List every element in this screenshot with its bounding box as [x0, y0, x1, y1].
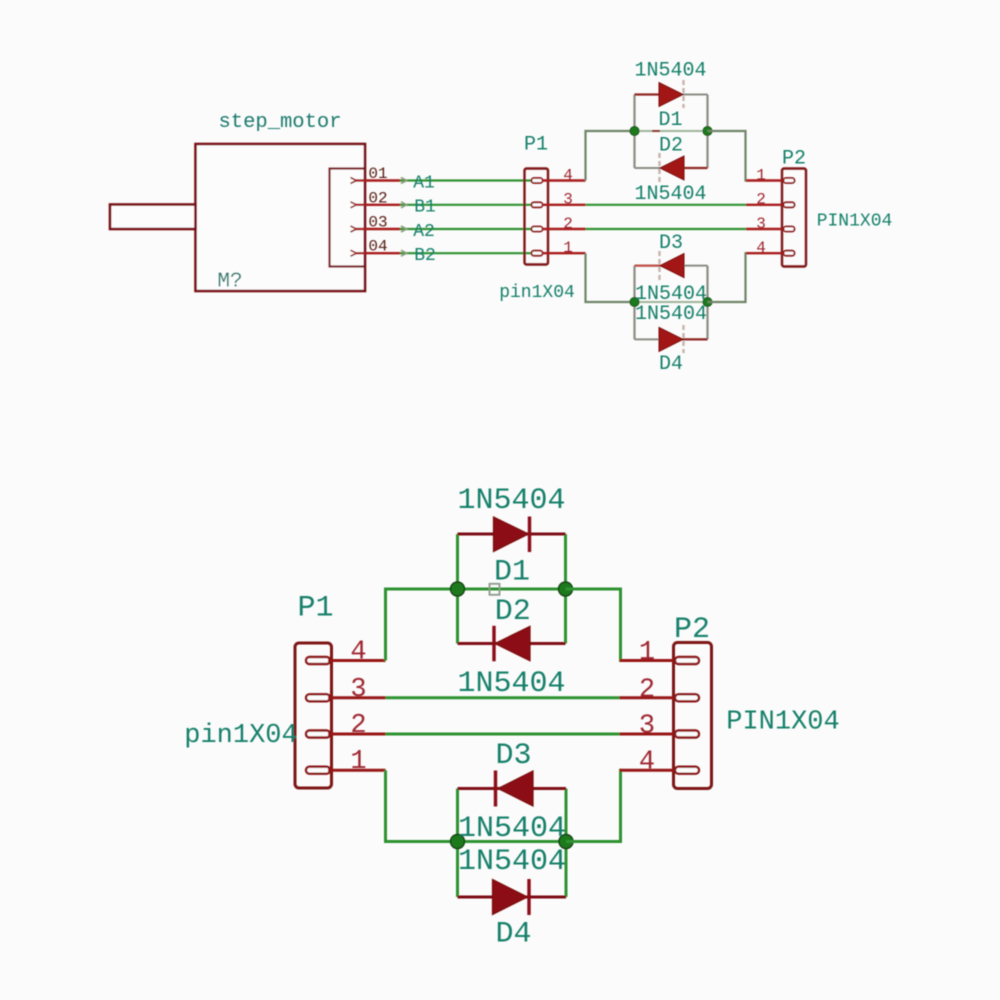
P1 bottom pad pin4	[306, 657, 330, 664]
wire net A1 motor to P1 pin4	[400, 179, 536, 181]
P2 stub pin1	[746, 179, 789, 181]
motor pin 2 stub	[355, 204, 401, 206]
D3D4 loop right vertical wire	[706, 266, 708, 340]
P1 pad pin2	[532, 227, 543, 232]
junction node bottom D1D2 left	[451, 582, 465, 596]
svg-text:4: 4	[563, 166, 573, 184]
svg-text:pin1X04: pin1X04	[184, 721, 297, 751]
motor pin 3 stub	[355, 228, 401, 230]
diode D3 lead line	[635, 265, 708, 267]
D1D2 bottom center wire	[458, 588, 566, 591]
net label arrow A2	[401, 226, 407, 232]
diode D2 lead line	[635, 167, 708, 169]
P2 stub pin2	[746, 204, 789, 206]
P1 stub pin2	[542, 228, 586, 230]
D3D4 bottom loop left vertical wire	[456, 789, 459, 898]
P2 bottom stub pin2	[620, 696, 678, 699]
wire P1 pin1 riser to D3D4 node	[586, 253, 635, 302]
P1 bottom stub pin1	[328, 769, 386, 772]
D3D4 center wire	[635, 301, 708, 303]
diode D4 cathode bar	[682, 325, 684, 353]
diode D2 cathode bar	[658, 153, 660, 182]
motor pin 3 arrow	[351, 226, 357, 232]
svg-text:4: 4	[756, 239, 766, 257]
P2 bottom pad pin4	[675, 767, 699, 774]
diode D1 lead line	[635, 94, 708, 96]
svg-text:1N5404: 1N5404	[458, 812, 566, 846]
svg-text:PIN1X04: PIN1X04	[726, 708, 839, 738]
wire net B2 motor to P1 pin1	[400, 252, 536, 254]
svg-text:M?: M?	[217, 271, 242, 294]
P1 bottom stub pin3	[328, 696, 386, 699]
diode D2 (bottom) lead line	[458, 642, 566, 645]
svg-text:B1: B1	[414, 198, 436, 218]
P2 pad pin2	[784, 202, 795, 207]
wire P1 pin4 riser to D1D2 node (bottom)	[386, 589, 458, 661]
svg-text:B2: B2	[414, 246, 436, 266]
wire net A2 motor to P1 pin2	[400, 228, 536, 230]
svg-text:P1: P1	[297, 592, 333, 626]
svg-text:1N5404: 1N5404	[457, 484, 565, 518]
svg-text:2: 2	[350, 711, 366, 741]
junction node D3D4 right	[703, 298, 712, 307]
motor pin 1 stub	[355, 179, 401, 181]
motor pin box	[330, 169, 365, 267]
motor pin 4 stub	[355, 252, 401, 254]
P2 pad pin3	[784, 227, 795, 232]
svg-text:D1: D1	[658, 109, 682, 132]
svg-text:1: 1	[639, 638, 655, 668]
P2 bottom stub pin1	[620, 659, 678, 662]
diode D3 (bottom) triangle	[498, 771, 533, 806]
wire P1 pin3 to P2 pin2	[586, 204, 747, 206]
diode D1 (bottom) cathode bar	[528, 517, 531, 553]
svg-text:A1: A1	[413, 173, 435, 193]
D1D2 bottom loop right vertical wire	[564, 534, 567, 644]
svg-text:A2: A2	[413, 222, 435, 242]
connector P1 (top) body	[525, 169, 549, 265]
junction node D1D2 right	[703, 127, 712, 136]
diode D4 (bottom) cathode bar	[527, 879, 530, 915]
diode D1 anode lead	[635, 93, 662, 95]
P2 bottom stub pin3	[620, 733, 678, 736]
P1 bottom pad pin2	[306, 731, 330, 738]
junction node bottom D3D4 right	[559, 835, 573, 849]
svg-text:4: 4	[639, 748, 655, 778]
small net anchor square	[490, 584, 500, 595]
svg-text:D4: D4	[495, 918, 531, 952]
diode D3 triangle	[660, 254, 684, 278]
motor pin 4 arrow	[351, 250, 357, 256]
svg-text:D2: D2	[659, 135, 683, 158]
diode D2 anode lead	[682, 167, 708, 169]
wire D1D2 node to P2 pin1	[708, 131, 748, 181]
diode D1 triangle	[659, 83, 683, 107]
D1D2 loop left vertical wire	[633, 95, 635, 169]
wire bottom D3D4 node to P2 pin4	[566, 770, 622, 841]
P1 pad pin4	[532, 178, 543, 183]
svg-text:2: 2	[756, 191, 766, 209]
P1 bottom stub pin4	[328, 659, 386, 662]
svg-text:pin1X04: pin1X04	[499, 283, 575, 303]
svg-text:2: 2	[639, 675, 655, 705]
wire P1 pin1 riser to D3D4 node (bottom)	[386, 770, 458, 841]
svg-text:4: 4	[350, 638, 366, 668]
svg-text:1: 1	[756, 166, 766, 184]
diode D4 (bottom) triangle	[493, 880, 528, 915]
diode D4 (bottom) lead line	[458, 896, 567, 899]
P1 pad pin3	[532, 202, 543, 207]
svg-text:1N5404: 1N5404	[458, 845, 566, 879]
diode D3 cathode-side lead	[635, 265, 662, 267]
diode D3 (bottom) lead line	[458, 787, 567, 790]
D1D2 center wire	[635, 130, 708, 132]
P2 bottom pad pin3	[675, 731, 699, 738]
svg-text:D1: D1	[494, 556, 530, 590]
connector P2 (top) body	[782, 169, 806, 267]
diode D3 (bottom) cathode bar	[494, 771, 497, 807]
svg-text:02: 02	[368, 189, 387, 207]
svg-text:3: 3	[563, 191, 573, 209]
svg-text:01: 01	[368, 165, 387, 183]
P1 bottom pad pin3	[306, 694, 330, 701]
svg-text:1: 1	[563, 239, 573, 257]
P2 pad pin1	[784, 178, 795, 183]
diode D2 (bottom) triangle	[495, 626, 530, 661]
svg-text:D3: D3	[659, 232, 683, 255]
D3D4 loop left vertical wire	[633, 266, 635, 340]
P2 stub pin3	[746, 228, 789, 230]
D1D2 bottom loop left vertical wire	[456, 534, 459, 644]
P1 stub pin3	[542, 204, 586, 206]
motor shaft	[110, 205, 196, 230]
wire P1 pin2 to P2 pin3 (bottom)	[386, 733, 621, 736]
svg-text:D4: D4	[659, 353, 683, 376]
svg-text:1N5404: 1N5404	[635, 303, 707, 326]
P2 pad pin4	[784, 251, 795, 256]
wire P1 pin2 to P2 pin3	[586, 228, 747, 230]
net label arrow B2	[401, 250, 407, 256]
P2 bottom stub pin4	[620, 769, 678, 772]
svg-text:03: 03	[368, 214, 387, 232]
svg-text:P1: P1	[524, 134, 548, 157]
D3D4 bottom center wire	[458, 840, 567, 843]
svg-text:04: 04	[368, 238, 387, 256]
svg-text:1: 1	[350, 747, 366, 777]
P1 pad pin1	[532, 251, 543, 256]
net label arrow A1	[401, 178, 407, 184]
diode D2 (bottom) cathode bar	[492, 626, 495, 662]
diode D4 triangle	[659, 327, 683, 351]
diode D1 (bottom) triangle	[494, 517, 529, 552]
junction node bottom D3D4 left	[451, 835, 465, 849]
svg-text:3: 3	[639, 712, 655, 742]
D3D4 bottom loop right vertical wire	[565, 789, 568, 898]
svg-text:2: 2	[563, 215, 573, 233]
svg-text:3: 3	[350, 675, 366, 705]
wire P1 pin4 riser to D1D2 node	[586, 131, 635, 181]
net label arrow B1	[401, 202, 407, 208]
P2 stub pin4	[746, 252, 789, 254]
junction node bottom D1D2 right	[559, 582, 573, 596]
connector P2 (bottom) body	[674, 643, 712, 789]
svg-text:3: 3	[756, 215, 766, 233]
connector P1 (bottom) body	[295, 643, 332, 788]
diode D4 lead line	[635, 338, 708, 340]
svg-text:P2: P2	[674, 613, 710, 647]
svg-text:D2: D2	[495, 595, 531, 629]
diode D3 cathode bar	[658, 251, 660, 280]
svg-text:1N5404: 1N5404	[634, 183, 706, 206]
wire D3D4 node to P2 pin4	[708, 253, 748, 302]
D1D2 loop right vertical wire	[706, 95, 708, 169]
P2 bottom pad pin1	[675, 657, 699, 664]
P1 stub pin1	[542, 252, 586, 254]
svg-text:1N5404: 1N5404	[634, 60, 706, 83]
junction node D3D4 left	[630, 298, 639, 307]
svg-text:PIN1X04: PIN1X04	[817, 212, 893, 232]
wire P1 pin3 to P2 pin2 (bottom)	[386, 696, 621, 699]
motor M? body	[196, 144, 366, 291]
wire bottom D1D2 node to P2 pin1	[566, 589, 623, 661]
svg-text:P2: P2	[782, 148, 806, 171]
junction node D1D2 left	[630, 127, 639, 136]
P2 bottom pad pin2	[675, 694, 699, 701]
diode D4 cathode-side lead	[682, 338, 708, 340]
wire net B1 motor to P1 pin3	[400, 204, 536, 206]
diode D1 cathode bar	[682, 80, 684, 108]
svg-text:1N5404: 1N5404	[457, 667, 565, 701]
D2 pin tick on center wire	[652, 130, 660, 132]
svg-text:step_motor: step_motor	[218, 111, 341, 134]
diode D2 triangle	[660, 156, 684, 180]
P1 bottom pad pin1	[306, 767, 330, 774]
diode D1 (bottom) lead line	[458, 533, 566, 536]
motor pin 2 arrow	[351, 202, 357, 208]
P1 stub pin4	[542, 179, 586, 181]
motor pin 1 arrow	[351, 178, 357, 184]
P1 bottom stub pin2	[328, 733, 386, 736]
svg-text:D3: D3	[495, 739, 531, 773]
